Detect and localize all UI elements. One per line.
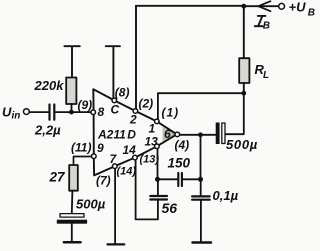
wire: input terminal to cap — [30, 111, 48, 113]
resistor RL — [239, 58, 249, 83]
capacitor 56 — [150, 196, 167, 200]
wire: 56 bottom L-wire to pin 14 — [136, 160, 158, 219]
capacitor C2 500u output (electrolytic) — [216, 123, 220, 145]
wire: 500u to ground — [71, 224, 73, 242]
label IB — [255, 16, 266, 26]
svg-text:2,2µ: 2,2µ — [34, 123, 61, 138]
junction: supply rail / RL — [241, 4, 246, 9]
svg-text:9: 9 — [97, 141, 104, 155]
wire: cap to pin 8 — [56, 111, 91, 113]
pin C — [112, 98, 117, 103]
wire: output cap right lead — [226, 93, 244, 134]
svg-text:13: 13 — [145, 135, 159, 149]
svg-text:(1): (1) — [162, 106, 180, 120]
wire: 150 cap right segment — [183, 178, 201, 180]
svg-text:1: 1 — [149, 122, 156, 136]
resistor 220k — [66, 78, 76, 105]
wire: RL bottom lead — [243, 83, 245, 93]
junction: input / 220k — [69, 110, 74, 115]
pin 6 — [175, 132, 180, 137]
svg-text:B: B — [308, 8, 315, 19]
wire: pin 13 down to node — [157, 149, 159, 180]
svg-text:14: 14 — [123, 143, 137, 157]
resistor 27 — [69, 165, 78, 191]
svg-text:(2): (2) — [139, 97, 154, 111]
svg-text:0,1µ: 0,1µ — [213, 188, 239, 203]
svg-text:500µ: 500µ — [76, 197, 106, 212]
svg-text:150: 150 — [168, 156, 191, 171]
wire: +UB supply rail top — [136, 5, 278, 7]
wire: pin2 up to supply rail — [135, 6, 137, 109]
ground: left — [64, 241, 81, 244]
svg-text:6: 6 — [164, 127, 171, 141]
svg-text:U: U — [2, 105, 12, 120]
junction: 150 cap right / 0,1u node — [198, 177, 203, 182]
junction: output node — [198, 132, 203, 137]
supply stub above 220k — [64, 46, 79, 77]
svg-text:2: 2 — [129, 113, 137, 127]
terminal +UB — [279, 3, 285, 9]
svg-text:+U: +U — [289, 0, 307, 15]
capacitor 2,2u — [50, 105, 55, 120]
wire: 56 cap top lead — [157, 179, 159, 195]
supply stub above pin C — [106, 46, 120, 98]
junction: RL / feedback / output cap — [241, 91, 246, 96]
capacitor 150 — [178, 173, 182, 186]
wire: RL top lead — [243, 6, 245, 58]
terminal Uin — [24, 109, 30, 115]
pin 7 — [113, 164, 118, 169]
pin 14 — [133, 155, 138, 160]
pin 8 — [91, 110, 96, 115]
svg-text:8: 8 — [98, 105, 105, 119]
junction: pin13 / 56 node — [155, 177, 160, 182]
ground: right — [193, 241, 212, 244]
svg-text:L: L — [263, 70, 269, 81]
svg-text:(8): (8) — [115, 85, 130, 99]
wire: op-amp output to cap — [180, 134, 216, 136]
pin 9 — [92, 154, 97, 159]
wire: 150 cap left segment — [158, 178, 178, 180]
wire: 0,1u top lead — [200, 179, 202, 195]
svg-text:(13): (13) — [140, 154, 160, 166]
svg-text:27: 27 — [49, 170, 67, 185]
svg-text:in: in — [12, 111, 21, 122]
svg-text:A211D: A211D — [97, 128, 136, 142]
wire: 27 to 500u cap — [71, 191, 74, 213]
wire: 0,1u to ground — [200, 201, 202, 242]
svg-text:500µ: 500µ — [226, 137, 258, 152]
op-amp U1 A211D triangle — [93, 89, 177, 175]
capacitor C1 500u bypass (electrolytic) — [60, 214, 84, 218]
wire: output node down — [200, 135, 202, 180]
arrow IB current direction — [258, 1, 270, 11]
svg-text:(4): (4) — [175, 138, 190, 152]
pin 13 — [155, 144, 160, 149]
op-amp apex shading — [163, 127, 177, 141]
svg-text:56: 56 — [162, 200, 178, 216]
wire: pin 9 to 27 resistor — [74, 157, 92, 166]
wire: 220k bottom to junction — [71, 104, 73, 112]
svg-text:(11): (11) — [71, 140, 91, 154]
svg-text:B: B — [263, 21, 270, 32]
svg-text:C: C — [111, 103, 120, 117]
pin 1 — [155, 119, 160, 124]
capacitor 0,1u — [192, 196, 210, 199]
wire: feedback rail to pin 1 — [158, 93, 244, 119]
ground: pin 7 — [108, 243, 125, 245]
svg-text:(7): (7) — [96, 174, 111, 188]
wire: pin 7 to ground — [114, 169, 116, 244]
svg-text:(14): (14) — [117, 166, 137, 178]
svg-text:(9): (9) — [78, 98, 93, 112]
pin 2 — [133, 109, 138, 114]
svg-text:220k: 220k — [34, 78, 65, 93]
